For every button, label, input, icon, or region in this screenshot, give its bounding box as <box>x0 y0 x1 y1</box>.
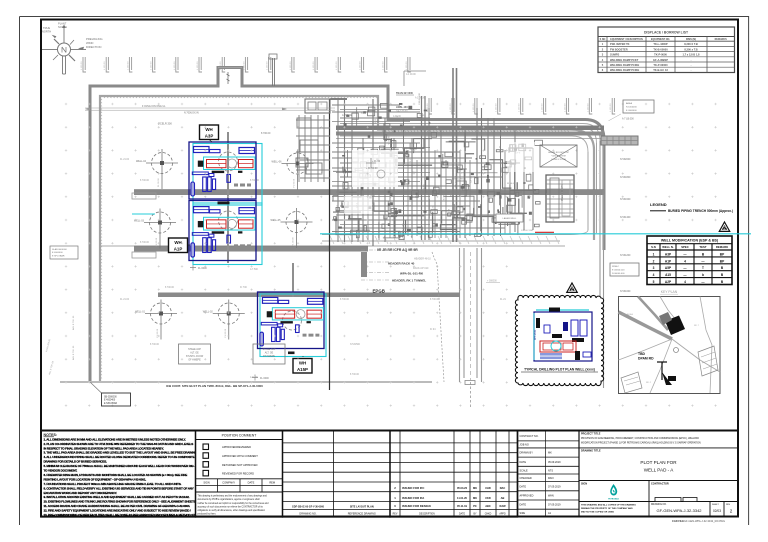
svg-text:L 100.00: L 100.00 <box>542 103 544 112</box>
svg-text:CHKD: CHKD <box>485 513 492 515</box>
dark box left of facility <box>305 99 330 113</box>
inner fence line <box>100 96 594 381</box>
svg-text:TYPICAL DRILLING PLOT PLAN WEL: TYPICAL DRILLING PLOT PLAN WELL (xxxx) <box>524 368 595 372</box>
svg-text:L 100.00: L 100.00 <box>243 61 245 70</box>
in-module wellhead 2 <box>219 211 238 230</box>
svg-text:ABC: ABC <box>485 504 491 508</box>
cyan flowline <box>320 233 751 235</box>
leader WH A3P <box>209 140 212 143</box>
svg-text:SB 0000000: SB 0000000 <box>104 396 117 398</box>
svg-text:GF-A-WBSP: GF-A-WBSP <box>653 58 668 62</box>
warning triangle detail <box>567 283 577 292</box>
fence tick marks row A <box>81 57 411 72</box>
svg-text:MAY NOT BE COPIED OR USED: MAY NOT BE COPIED OR USED <box>581 511 614 514</box>
svg-text:05.09.2019: 05.09.2019 <box>548 461 561 464</box>
svg-text:LASER ROOM STOP: LASER ROOM STOP <box>548 151 570 154</box>
svg-text:NORTH: NORTH <box>42 29 51 33</box>
svg-text:FW BOOSTER: FW BOOSTER <box>610 47 628 51</box>
label box WH A3P <box>200 125 219 140</box>
svg-text:07.09.2019: 07.09.2019 <box>548 485 561 488</box>
svg-text:DATE: DATE <box>520 461 527 464</box>
svg-text:ALT. OE: ALT. OE <box>190 352 199 355</box>
svg-text:8 700.00: 8 700.00 <box>150 344 160 346</box>
area label box <box>623 100 654 113</box>
svg-text:THIS DRAWING AND ALL COPIES OF: THIS DRAWING AND ALL COPIES OF THE DRAWI… <box>581 503 636 506</box>
facility piping texture <box>332 68 604 246</box>
svg-text:N 1000000: N 1000000 <box>626 107 637 109</box>
svg-text:TK-B-00000: TK-B-00000 <box>653 47 668 51</box>
svg-text:obligations to verify all dime: obligations to verify all dimensions, ot… <box>198 509 266 512</box>
svg-text:REM: REM <box>269 481 275 485</box>
svg-text:L 100.00: L 100.00 <box>290 61 292 70</box>
property line <box>329 99 331 390</box>
svg-text:N 532000: N 532000 <box>620 158 631 161</box>
south exit road <box>460 248 482 382</box>
right road vertical <box>599 141 601 385</box>
svg-text:07.09.2019: 07.09.2019 <box>548 504 561 507</box>
svg-text:10. EXISTING FLOWLINES AND TRU: 10. EXISTING FLOWLINES AND TRUNK LINE RO… <box>44 500 197 504</box>
svg-text:TK-P-00000: TK-P-00000 <box>653 63 668 67</box>
svg-text:-: - <box>691 59 692 62</box>
wellhead W2 row1 <box>272 150 314 190</box>
svg-text:EQUIPMENT NO.: EQUIPMENT NO. <box>651 38 670 41</box>
left corridor texture <box>120 159 507 379</box>
svg-text:WELL-05: WELL-05 <box>271 219 282 222</box>
wellhead W4 row2 <box>271 208 313 248</box>
svg-text:L 100.00: L 100.00 <box>383 61 385 70</box>
svg-text:FL 00.00: FL 00.00 <box>293 237 295 246</box>
svg-text:DISPLACE / BORROW LIST: DISPLACE / BORROW LIST <box>644 31 689 35</box>
svg-text:documents by PCIB's organizati: documents by PCIB's organizations, agent… <box>198 498 260 501</box>
svg-text:A1P: A1P <box>174 246 183 251</box>
svg-text:REVIEWED FOR RECORD: REVIEWED FOR RECORD <box>222 472 254 476</box>
svg-text:8,300 X T.B: 8,300 X T.B <box>684 42 698 46</box>
svg-text:AGL E 700 .00: AGL E 700 .00 <box>72 345 75 360</box>
svg-text:4. ALL UNDERGROUND PIPING SHAL: 4. ALL UNDERGROUND PIPING SHALL BE ROUTE… <box>44 455 195 459</box>
svg-text:4: 4 <box>684 259 686 263</box>
svg-text:A 00.00: A 00.00 <box>393 115 402 118</box>
svg-text:SIGN: SIGN <box>203 481 209 485</box>
svg-text:ISSUED FOR IFC: ISSUED FOR IFC <box>402 486 424 490</box>
svg-text:BURIED PIPING TRENCH 500mm (Ap: BURIED PIPING TRENCH 500mm (Approx.) <box>668 209 733 213</box>
svg-text:8 700.00: 8 700.00 <box>430 299 440 301</box>
wpa-c coordinate box <box>610 263 639 276</box>
well modification table <box>647 236 732 285</box>
svg-text:PW 7: PW 7 <box>402 148 408 150</box>
svg-text:IN RESPECT TO FINAL GRADING EL: IN RESPECT TO FINAL GRADING ELEVATION OF… <box>44 446 164 450</box>
svg-text:E 0000000: E 0000000 <box>626 110 637 112</box>
svg-text:8 700.00: 8 700.00 <box>350 374 360 376</box>
top facility road band <box>340 124 600 153</box>
svg-text:-: - <box>691 64 692 67</box>
svg-text:IC 04: IC 04 <box>349 187 351 193</box>
key plan map <box>619 297 721 394</box>
svg-text:N 53: N 53 <box>423 184 425 189</box>
fence tick marks row B <box>427 98 615 114</box>
svg-text:3. THE WELL PAD AREA SHALL BE: 3. THE WELL PAD AREA SHALL BE GRADED AND… <box>44 451 198 455</box>
svg-text:PETRONAS: PETRONAS <box>608 497 619 500</box>
svg-text:L 100.00: L 100.00 <box>313 61 315 70</box>
substation building <box>546 175 574 222</box>
svg-text:DATE: DATE <box>248 481 255 485</box>
svg-text:WELL PAD - A: WELL PAD - A <box>644 468 675 473</box>
svg-text:5. MINIMUM CLEARANCE OF 7500mm: 5. MINIMUM CLEARANCE OF 7500mm SHALL BE … <box>44 464 207 468</box>
svg-text:IC 04: IC 04 <box>449 208 451 214</box>
svg-text:8. CONTRACTOR SHALL FIELD-VERI: 8. CONTRACTOR SHALL FIELD-VERIFY ALL EXI… <box>44 486 194 490</box>
svg-text:-: - <box>691 69 692 72</box>
svg-text:DT HWEPE: DT HWEPE <box>263 356 276 358</box>
svg-text:LWBL-103: LWBL-103 <box>396 106 408 109</box>
svg-text:05.03.20: 05.03.20 <box>457 486 468 490</box>
svg-text:8 700.00: 8 700.00 <box>165 287 175 289</box>
svg-text:AREA: AREA <box>626 102 632 105</box>
survey grid crosses <box>65 103 717 407</box>
svg-text:S.N: S.N <box>651 245 656 249</box>
wellhead W3 row2 <box>134 209 176 249</box>
revision table <box>390 431 518 518</box>
svg-text:EXCAVATION WORK AND REPORT ANY: EXCAVATION WORK AND REPORT ANY DISCREPAN… <box>44 491 118 495</box>
svg-text:WELL N.: WELL N. <box>662 245 674 249</box>
riser pair above berm <box>272 58 274 86</box>
svg-text:E 00000.000: E 00000.000 <box>612 270 625 272</box>
svg-text:W 00.00: W 00.00 <box>372 201 374 210</box>
south road end continuation <box>470 382 472 407</box>
svg-text:L 100.00: L 100.00 <box>104 61 106 70</box>
svg-text:DP 8: DP 8 <box>465 234 471 236</box>
drain dotted line <box>432 252 444 382</box>
displace borrow list table <box>598 27 735 73</box>
svg-text:COMPANY: COMPANY <box>222 481 235 485</box>
laser well box <box>496 214 523 222</box>
title block top line <box>41 430 738 432</box>
svg-text:PW 7: PW 7 <box>406 205 412 207</box>
svg-text:A3P: A3P <box>665 252 672 256</box>
svg-text:1: 1 <box>653 252 655 256</box>
svg-text:AGL E 700 .00: AGL E 700 .00 <box>72 315 75 330</box>
svg-text:WPA-DL-101-RK: WPA-DL-101-RK <box>400 271 424 275</box>
svg-text:WH: WH <box>299 361 306 366</box>
svg-text:SLAB 0000000: SLAB 0000000 <box>52 248 68 251</box>
svg-text:produced by them.: produced by them. <box>198 513 217 516</box>
svg-text:NTS: NTS <box>548 469 553 472</box>
svg-text:A15: A15 <box>665 273 671 277</box>
svg-text:ICB CONT. SITE BLST PLAN TWR.: ICB CONT. SITE BLST PLAN TWR. 800-E, DBL… <box>166 384 263 388</box>
svg-text:W 00.00: W 00.00 <box>389 135 391 144</box>
svg-text:FL 21.00: FL 21.00 <box>120 299 130 301</box>
svg-text:neither be construed as implic: neither be construed as implicit or resp… <box>198 502 270 505</box>
svg-text:L 100.00: L 100.00 <box>151 61 153 70</box>
svg-text:RAC: RAC <box>500 486 506 490</box>
module WH A3P <box>189 142 262 205</box>
svg-text:HEADER RACK 40: HEADER RACK 40 <box>388 262 415 266</box>
svg-text:STAGE ACP: STAGE ACP <box>263 348 276 351</box>
svg-text:CONTRACTOR: CONTRACTOR <box>651 482 669 485</box>
svg-text:DRAWING FOR DETAILS OF BURIED: DRAWING FOR DETAILS OF BURIED SERVICES. <box>44 460 108 464</box>
svg-text:L 100.00: L 100.00 <box>359 61 361 70</box>
svg-text:+ FL 00: + FL 00 <box>372 160 381 163</box>
svg-text:N 531000: N 531000 <box>620 290 631 293</box>
svg-text:WH: WH <box>205 127 212 132</box>
svg-text:L 100.00: L 100.00 <box>519 103 521 112</box>
svg-text:VDS SYSTEM: VDS SYSTEM <box>551 156 565 158</box>
svg-text:N 531600: N 531600 <box>620 198 631 201</box>
corridor row3 <box>158 293 460 298</box>
svg-text:FL 21: FL 21 <box>433 205 435 211</box>
svg-text:IC 04: IC 04 <box>470 177 476 179</box>
svg-text:L 100.00: L 100.00 <box>450 103 452 112</box>
svg-text:L 100.00: L 100.00 <box>197 61 199 70</box>
bottom left diagonal leader <box>90 382 102 393</box>
svg-text:N 53: N 53 <box>459 191 461 196</box>
svg-text:ALT. OE: ALT. OE <box>265 352 274 355</box>
svg-text:RETURNED NOT APPROVED: RETURNED NOT APPROVED <box>222 463 258 467</box>
red marker line <box>535 231 554 233</box>
svg-text:NORTH: NORTH <box>58 25 67 29</box>
svg-text:PLANT: PLANT <box>58 22 67 26</box>
corridor row2 <box>134 246 368 252</box>
svg-text:F OJNG ION ONG UL: F OJNG ION ONG UL <box>142 105 166 108</box>
svg-text:IC 04: IC 04 <box>430 329 436 331</box>
svg-text:L 100.00: L 100.00 <box>81 61 83 70</box>
svg-text:IC 04: IC 04 <box>443 194 445 200</box>
leader WH A15P <box>302 356 304 357</box>
svg-text:A 700UG: A 700UG <box>342 114 352 117</box>
stage label box 2 <box>253 344 285 364</box>
svg-text:DATE: DATE <box>459 512 465 515</box>
svg-text:DP 8: DP 8 <box>488 210 490 216</box>
svg-text:REV: REV <box>726 504 731 506</box>
reference drawings table <box>283 431 391 518</box>
svg-text:PLOT PLAN FOR: PLOT PLAN FOR <box>640 460 677 465</box>
wind arrow <box>78 47 84 50</box>
road chevrons <box>330 236 559 244</box>
svg-text:8,300 x T.B: 8,300 x T.B <box>684 47 697 51</box>
svg-text:SHEET: SHEET <box>712 504 719 506</box>
svg-text:DRAWN BY: DRAWN BY <box>520 452 534 455</box>
svg-text:A 1 00.00: A 1 00.00 <box>415 97 425 100</box>
svg-text:8 700.00: 8 700.00 <box>250 180 260 182</box>
svg-text:FL 21: FL 21 <box>375 118 377 124</box>
svg-text:N 00000.000: N 00000.000 <box>612 273 625 275</box>
svg-text:DIMS (M): DIMS (M) <box>686 38 696 41</box>
svg-text:A15P: A15P <box>297 367 308 372</box>
svg-text:A 7 LB.000: A 7 LB.000 <box>622 118 634 121</box>
svg-text:RACK-CP 010: RACK-CP 010 <box>413 267 429 270</box>
svg-text:CKD: CKD <box>485 496 491 500</box>
svg-text:IC 700: IC 700 <box>240 287 247 289</box>
svg-text:b: b <box>702 273 704 277</box>
svg-text:WPA-C: WPA-C <box>612 265 620 268</box>
svg-text:MK: MK <box>473 496 477 500</box>
svg-text:HEADER, RK 1 TUNNEL: HEADER, RK 1 TUNNEL <box>392 279 426 283</box>
svg-text:05.11.19: 05.11.19 <box>457 504 468 508</box>
svg-text:TIE-IN GF 0000: TIE-IN GF 0000 <box>396 92 414 95</box>
label box WH A15P <box>293 359 312 374</box>
stage label box <box>179 344 211 364</box>
fl mark below module2 <box>190 265 196 271</box>
svg-text:APPD: APPD <box>499 512 506 515</box>
svg-text:ISSUED FOR IFA: ISSUED FOR IFA <box>402 496 424 500</box>
svg-text:SIGN: SIGN <box>581 482 587 485</box>
label box WH A1P <box>169 238 188 253</box>
svg-text:CONTRACT NO.: CONTRACT NO. <box>520 435 539 438</box>
svg-text:4: 4 <box>684 280 686 284</box>
corridor row1 <box>134 190 604 196</box>
svg-text:EPGB: EPGB <box>373 289 385 294</box>
svg-text:RAW: RAW <box>499 504 506 508</box>
svg-text:TO VENDOR DOCUMENT.: TO VENDOR DOCUMENT. <box>44 469 78 473</box>
svg-text:L 100.00: L 100.00 <box>174 61 176 70</box>
svg-text:EQUIPMENT / DESCRIPTION: EQUIPMENT / DESCRIPTION <box>610 38 643 41</box>
svg-text:PROVISION OF ENGINEERING, PROC: PROVISION OF ENGINEERING, PROCUREMENT, C… <box>581 437 699 440</box>
wellhead W6 row3 <box>203 300 245 340</box>
svg-text:5: 5 <box>653 280 655 284</box>
warning triangle legend <box>719 222 729 231</box>
facility white voids <box>344 142 535 214</box>
gate posts at notch <box>217 68 220 87</box>
svg-text:A5P: A5P <box>665 266 672 270</box>
svg-text:4: 4 <box>653 273 655 277</box>
svg-text:N 531200: N 531200 <box>620 254 631 257</box>
svg-text:FL 21: FL 21 <box>340 128 346 130</box>
svg-text:RD 7: RD 7 <box>694 325 700 327</box>
svg-text:N 53: N 53 <box>337 204 339 209</box>
svg-text:WELL-04: WELL-04 <box>136 160 147 163</box>
svg-text:GF-J 00.00: GF-J 00.00 <box>396 111 408 113</box>
svg-text:N 700UGX.IN: N 700UGX.IN <box>184 112 199 115</box>
svg-text:DESCRIPTION: DESCRIPTION <box>419 513 435 515</box>
svg-text:NOTES:: NOTES: <box>44 433 58 437</box>
svg-text:6. FIREWATER RING MAIN, HYDRAN: 6. FIREWATER RING MAIN, HYDRANTS AND MON… <box>44 473 188 477</box>
sign board box <box>540 145 577 167</box>
wellhead W5 row3 <box>135 300 177 340</box>
svg-text:11.01.20: 11.01.20 <box>457 496 468 500</box>
svg-text:Water 2 W CP4: Water 2 W CP4 <box>561 184 564 201</box>
svg-text:TRUE: TRUE <box>43 26 50 30</box>
svg-text:KEY PLAN: KEY PLAN <box>661 290 678 294</box>
wellhead W1 row1 <box>136 149 178 189</box>
svg-text:FW1 WATER TK: FW1 WATER TK <box>610 42 630 46</box>
svg-text:accuracy of such documents nor: accuracy of such documents nor relieve t… <box>198 505 264 508</box>
svg-text:FL 00.00: FL 00.00 <box>294 178 296 187</box>
svg-text:GF-GEN-WPA-J-32-3342: GF-GEN-WPA-J-32-3342 <box>656 508 702 513</box>
notes block <box>41 431 206 518</box>
svg-text:RD 2: RD 2 <box>646 382 652 384</box>
svg-text:8 700.00: 8 700.00 <box>340 299 350 301</box>
svg-text:FIGHTING LAYOUT FOR LOCATION O: FIGHTING LAYOUT FOR LOCATION OF EQUIPMEN… <box>44 477 147 481</box>
svg-text:MODIFICATION PROJECT (PHASE 1): MODIFICATION PROJECT (PHASE 1) FOR PETRO… <box>581 441 701 444</box>
svg-text:STUSH L FCOW: STUSH L FCOW <box>186 356 204 358</box>
road stub south of corridor <box>361 252 367 277</box>
svg-text:8 700.00: 8 700.00 <box>261 132 271 135</box>
svg-text:STAGE ACP: STAGE ACP <box>188 348 201 351</box>
svg-text:SUMPS: SUMPS <box>610 53 619 57</box>
svg-text:PROJECT TITLE: PROJECT TITLE <box>581 432 601 435</box>
in-module wellhead 3 <box>283 311 302 330</box>
svg-text:N 531500: N 531500 <box>350 344 361 346</box>
svg-text:WELL-06: WELL-06 <box>272 161 283 164</box>
svg-text:TEST: TEST <box>699 245 706 249</box>
svg-text:BY: BY <box>473 513 477 515</box>
svg-text:KEY AREA: KEY AREA <box>622 313 633 316</box>
pipe rack labels <box>361 248 431 294</box>
dimension line top <box>85 107 335 109</box>
svg-text:DRAWING NO.: DRAWING NO. <box>651 503 667 506</box>
svg-text:PC: PC <box>473 504 477 508</box>
facility west column texture <box>296 115 330 182</box>
svg-text:OF HWEPE: OF HWEPE <box>188 360 201 362</box>
svg-text:8 ELEC RM: 8 ELEC RM <box>455 176 457 188</box>
svg-text:13. PRE-COMMISSIONING OF NEW F: 13. PRE-COMMISSIONING OF NEW FACILITIES … <box>44 513 200 517</box>
svg-text:A2P: A2P <box>665 280 672 284</box>
svg-text:2: 2 <box>653 259 655 263</box>
svg-text:A 1 00.00: A 1 00.00 <box>406 73 416 76</box>
svg-text:APPROVED WITH COMMENT: APPROVED WITH COMMENT <box>222 454 258 458</box>
svg-text:PW 7: PW 7 <box>361 113 367 115</box>
svg-text:W 00.00: W 00.00 <box>403 223 405 232</box>
svg-text:ØCELR.300: ØCELR.300 <box>158 121 173 125</box>
svg-text:A 700: A 700 <box>411 189 417 192</box>
module WH A15P <box>258 292 327 357</box>
svg-text:2. PLAN CO-ORDINATES SHOWN ARE: 2. PLAN CO-ORDINATES SHOWN ARE TO UTM ZO… <box>44 442 194 446</box>
leader note box <box>102 393 131 406</box>
svg-text:CONN X ZONE: CONN X ZONE <box>551 159 567 161</box>
svg-text:FL 00.00: FL 00.00 <box>158 178 160 187</box>
svg-text:02/03: 02/03 <box>713 509 721 513</box>
svg-text:REV: REV <box>393 513 398 515</box>
svg-text:A 7.500: A 7.500 <box>250 268 259 271</box>
legend entry <box>650 210 666 212</box>
svg-text:MK: MK <box>548 452 552 455</box>
svg-text:DPAM RD: DPAM RD <box>638 357 654 361</box>
svg-text:SCALE: SCALE <box>520 469 529 472</box>
svg-text:SIZE: SIZE <box>520 512 526 515</box>
svg-text:8 ELEC RM: 8 ELEC RM <box>521 230 533 232</box>
svg-text:E SPLOBAR: E SPLOBAR <box>104 402 117 405</box>
well flowline vertical r1 <box>227 132 229 263</box>
svg-text:8 700.00: 8 700.00 <box>140 242 150 244</box>
svg-text:2: 2 <box>730 509 733 514</box>
svg-text:CHD: CHD <box>485 486 491 490</box>
svg-text:HEADER 48-10: HEADER 48-10 <box>414 258 431 261</box>
berm boundary outer <box>90 68 604 382</box>
svg-text:8 ELEC RM: 8 ELEC RM <box>452 179 464 181</box>
fence hatches <box>100 96 569 378</box>
svg-text:FL 0000: FL 0000 <box>260 377 269 380</box>
svg-text:S NO: S NO <box>600 38 606 41</box>
svg-text:DATE: DATE <box>520 485 527 488</box>
svg-text:N 53: N 53 <box>420 115 425 117</box>
bottom road band <box>100 230 588 246</box>
svg-text:POSITION COMMENT: POSITION COMMENT <box>222 434 257 438</box>
svg-text:FL 00.00: FL 00.00 <box>225 328 227 337</box>
svg-text:DRAWING NO.: DRAWING NO. <box>299 512 316 515</box>
svg-text:SPEC: SPEC <box>681 245 689 249</box>
svg-text:E SPLOBAR: E SPLOBAR <box>52 254 65 257</box>
svg-text:DATE: DATE <box>520 504 527 507</box>
svg-text:9. INSTALLATION AROUND EXISTIN: 9. INSTALLATION AROUND EXISTING WELLS AN… <box>44 495 190 499</box>
svg-text:FL 21: FL 21 <box>499 145 501 151</box>
svg-text:1,7 x 2,8 B 1,8: 1,7 x 2,8 B 1,8 <box>682 53 700 57</box>
position comment block <box>196 431 283 518</box>
svg-text:REMARKS: REMARKS <box>715 38 727 41</box>
svg-text:T: T <box>702 266 704 270</box>
south road dashes <box>470 252 472 380</box>
svg-text:TBD: TBD <box>638 352 646 356</box>
svg-text:L 100.00: L 100.00 <box>473 103 475 112</box>
culvert crossing <box>601 136 638 145</box>
svg-text:W 00.00: W 00.00 <box>507 183 516 185</box>
